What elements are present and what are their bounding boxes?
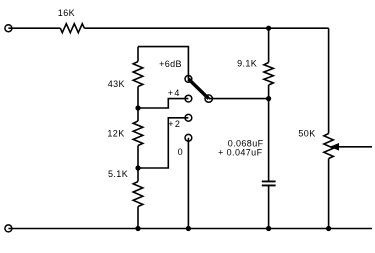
svg-text:+4: +4 bbox=[168, 88, 181, 98]
svg-text:16K: 16K bbox=[58, 8, 75, 18]
svg-text:0: 0 bbox=[178, 147, 183, 157]
svg-text:9.1K: 9.1K bbox=[237, 59, 257, 69]
svg-text:12K: 12K bbox=[107, 128, 124, 138]
svg-text:5.1K: 5.1K bbox=[108, 169, 128, 179]
svg-text:50K: 50K bbox=[298, 128, 315, 138]
svg-text:+6dB: +6dB bbox=[159, 59, 182, 69]
svg-text:+ 0.047uF: + 0.047uF bbox=[218, 148, 262, 158]
svg-text:+2: +2 bbox=[168, 119, 181, 129]
svg-text:43K: 43K bbox=[108, 79, 125, 89]
